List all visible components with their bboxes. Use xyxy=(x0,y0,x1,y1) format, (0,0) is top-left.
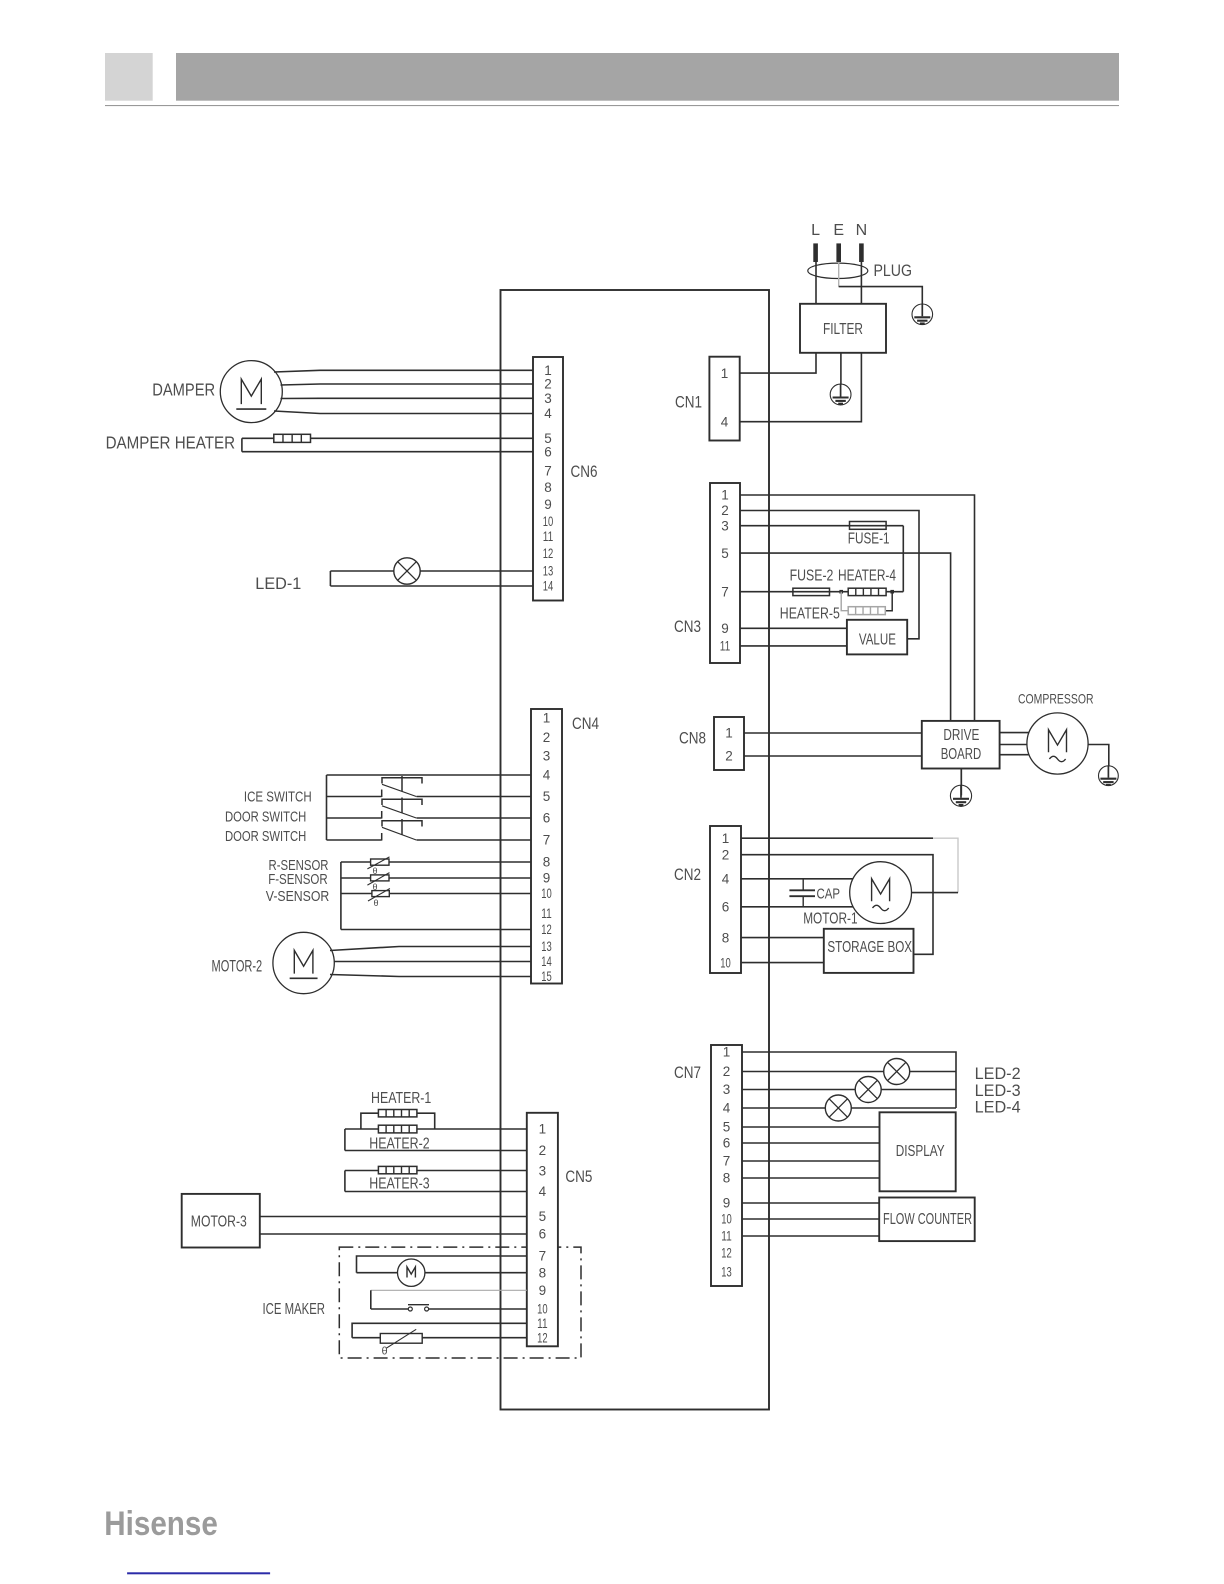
heater element HEATER-4 xyxy=(848,588,886,595)
svg-text:6: 6 xyxy=(539,1227,547,1242)
svg-text:2: 2 xyxy=(543,730,551,745)
wire CN7 pin7 to display xyxy=(742,1160,880,1162)
reed switch bridge xyxy=(408,1304,429,1306)
motor DAMPER circle xyxy=(220,361,282,423)
thermistor F-SENSOR xyxy=(371,875,389,881)
switch bracket xyxy=(382,778,422,784)
switch stem xyxy=(401,819,403,835)
svg-text:6: 6 xyxy=(544,445,552,460)
svg-text:8: 8 xyxy=(543,855,551,870)
switch blade xyxy=(382,784,416,796)
svg-text:θ: θ xyxy=(382,1346,388,1358)
wire damper heater to CN6 pin 6 xyxy=(242,451,533,453)
heater element HEATER-3 xyxy=(378,1166,417,1173)
svg-text:FUSE-1: FUSE-1 xyxy=(848,531,890,548)
wire filter N to CN1 pin 4 xyxy=(740,353,862,422)
svg-text:F-SENSOR: F-SENSOR xyxy=(268,871,328,888)
svg-text:9: 9 xyxy=(723,1196,731,1211)
wire heater-2 left end xyxy=(344,1129,346,1151)
svg-text:FILTER: FILTER xyxy=(823,321,863,338)
svg-text:15: 15 xyxy=(541,969,552,984)
wire motor-2 to CN4 pin 14 xyxy=(334,961,531,963)
thermistor ice maker xyxy=(380,1334,422,1344)
svg-text:5: 5 xyxy=(539,1209,547,1224)
wire damper to CN6 pin 4 xyxy=(274,411,533,414)
wire ice maker to CN5 pin 11 xyxy=(352,1323,527,1337)
wire CN2 pin2 to storage box xyxy=(741,855,933,955)
svg-text:CAP: CAP xyxy=(817,887,841,903)
wire CN2 pin8 to storage box xyxy=(741,937,824,939)
svg-text:6: 6 xyxy=(723,1136,731,1151)
wire CN8 pin1 to drive board xyxy=(744,732,922,734)
switch fixed contact xyxy=(381,790,383,798)
wire motor-2 to CN4 pin 13 xyxy=(330,947,531,951)
wire to CN5 pin 2 xyxy=(345,1150,527,1152)
svg-text:CN6: CN6 xyxy=(571,463,598,481)
svg-text:DOOR SWITCH: DOOR SWITCH xyxy=(225,828,306,845)
svg-text:N: N xyxy=(856,222,868,239)
lamp LED-4 xyxy=(825,1095,851,1121)
svg-text:DRIVE: DRIVE xyxy=(943,727,979,744)
svg-text:STORAGE BOX: STORAGE BOX xyxy=(827,939,912,956)
main control board outline xyxy=(501,290,770,1410)
motor ice maker M glyph xyxy=(407,1267,415,1278)
svg-text:4: 4 xyxy=(544,406,552,421)
wire CN2 pin10 to storage box xyxy=(741,962,824,964)
wire switch row left xyxy=(327,817,382,819)
wire motor-3 to CN5 pin 6 xyxy=(260,1233,527,1235)
svg-text:7: 7 xyxy=(721,584,729,599)
fuse FUSE-1 xyxy=(850,522,887,530)
svg-text:9: 9 xyxy=(539,1283,547,1298)
junction heater-4 left xyxy=(839,590,843,594)
wire heater-3 left end xyxy=(344,1171,346,1192)
wire plug E drop (faded) xyxy=(838,262,840,287)
wire switch common vertical xyxy=(326,775,328,840)
wire sensor common vertical xyxy=(340,862,342,930)
wire heater-5 branch right xyxy=(885,592,892,611)
svg-text:12: 12 xyxy=(543,546,554,561)
svg-text:3: 3 xyxy=(723,1082,731,1097)
svg-text:6: 6 xyxy=(543,811,551,826)
wire CN7 pin3 with LED-3 xyxy=(742,1089,956,1091)
wire switch row left xyxy=(327,796,382,798)
wire drive board earth stub xyxy=(960,769,962,796)
svg-text:3: 3 xyxy=(721,518,729,533)
wire R-SENSOR to CN4 pin 8 xyxy=(341,861,531,863)
wire to CN4 pin 4 xyxy=(327,774,532,776)
svg-text:HEATER-4: HEATER-4 xyxy=(838,568,896,585)
svg-text:11: 11 xyxy=(543,529,554,544)
svg-text:13: 13 xyxy=(721,1265,732,1280)
svg-text:4: 4 xyxy=(543,768,551,783)
wire motor-3 to CN5 pin 5 xyxy=(260,1216,527,1218)
wire CN7 pin10 to flow counter xyxy=(742,1218,879,1220)
switch stem xyxy=(401,798,403,814)
svg-text:CN5: CN5 xyxy=(565,1168,592,1186)
wire LED-1 to CN6 pin 14 xyxy=(330,585,533,587)
ground earth below drive board xyxy=(960,785,962,798)
wire ice maker to CN5 pin 9 (light) xyxy=(371,1289,527,1291)
svg-text:MOTOR-1: MOTOR-1 xyxy=(803,911,857,928)
heater element HEATER-1 xyxy=(361,1113,435,1129)
wire CN7 pin6 to display xyxy=(742,1142,880,1144)
svg-text:CN8: CN8 xyxy=(679,730,706,748)
wire switch row right to CN4 xyxy=(417,839,532,841)
switch stem xyxy=(401,776,403,792)
svg-text:1: 1 xyxy=(543,711,551,726)
svg-text:11: 11 xyxy=(541,906,552,921)
svg-text:7: 7 xyxy=(543,833,551,848)
wire switch row right to CN4 xyxy=(417,817,532,819)
wire compressor to earth xyxy=(1088,745,1109,766)
svg-text:FUSE-2: FUSE-2 xyxy=(790,568,834,585)
lamp LED-3 xyxy=(855,1077,881,1103)
reed switch contact right xyxy=(425,1307,429,1311)
wire CN2 pin6 to motor-1 xyxy=(741,906,853,908)
wire damper to CN6 pin 2 xyxy=(281,384,534,385)
svg-text:PLUG: PLUG xyxy=(874,262,913,280)
wire damper to CN6 pin 1 xyxy=(274,370,533,372)
svg-text:7: 7 xyxy=(539,1249,547,1264)
svg-text:CN4: CN4 xyxy=(572,715,599,733)
wire motor-2 to CN4 pin 15 xyxy=(330,975,531,977)
wire fuse-1 drop to heater row xyxy=(902,526,904,592)
svg-text:E: E xyxy=(833,222,844,239)
svg-text:ICE MAKER: ICE MAKER xyxy=(263,1301,326,1318)
svg-text:10: 10 xyxy=(541,886,552,901)
reed switch contact left xyxy=(408,1307,412,1311)
svg-text:4: 4 xyxy=(539,1184,547,1199)
footer blue rule xyxy=(127,1572,270,1574)
wire CN7 pin9 to flow counter xyxy=(742,1202,879,1204)
plug body ellipse xyxy=(808,263,868,278)
wire ice maker motor to CN5 pin 8 xyxy=(357,1272,398,1274)
svg-text:2: 2 xyxy=(544,377,552,392)
svg-text:1: 1 xyxy=(721,488,729,503)
svg-text:10: 10 xyxy=(721,1212,732,1227)
wire LED-1 left end xyxy=(329,571,331,586)
capacitor CAP drop bottom xyxy=(802,896,804,907)
svg-text:12: 12 xyxy=(721,1246,732,1261)
svg-text:9: 9 xyxy=(721,621,729,636)
connector CN4 box xyxy=(531,709,562,984)
svg-text:1: 1 xyxy=(725,726,733,741)
connector CN8 box xyxy=(714,717,744,770)
component STORAGE BOX box xyxy=(824,929,914,973)
wire LED-1 to CN6 pin 13 xyxy=(330,570,533,572)
svg-text:V-SENSOR: V-SENSOR xyxy=(266,888,330,905)
page header gray bar xyxy=(176,53,1119,101)
svg-text:12: 12 xyxy=(541,922,552,937)
svg-text:11: 11 xyxy=(720,639,731,654)
wire filter earth stub xyxy=(840,353,842,384)
svg-text:2: 2 xyxy=(723,1064,731,1079)
svg-text:Hisense: Hisense xyxy=(104,1505,218,1543)
ground earth at compressor xyxy=(1107,766,1109,778)
switch bracket xyxy=(382,821,422,827)
svg-text:2: 2 xyxy=(725,749,733,764)
wire CN7 pin2 with LED-2 xyxy=(742,1071,956,1073)
component VALUE box xyxy=(847,620,907,655)
svg-text:FLOW COUNTER: FLOW COUNTER xyxy=(883,1211,972,1228)
plug pin blade N xyxy=(859,243,864,262)
motor MOTOR-1 M glyph xyxy=(872,879,890,902)
capacitor CAP plates xyxy=(789,889,815,891)
wire ice maker sensor to CN5 pin 12 xyxy=(352,1337,527,1339)
svg-text:2: 2 xyxy=(721,503,729,518)
wire damper heater left end xyxy=(241,438,243,451)
svg-text:14: 14 xyxy=(543,579,554,594)
svg-text:9: 9 xyxy=(543,871,551,886)
wire F-SENSOR to CN4 pin 9 xyxy=(341,877,531,879)
heater element damper heater xyxy=(274,434,311,442)
motor MOTOR-1 circle xyxy=(850,862,912,924)
wire ice maker to CN5 pin 7 xyxy=(357,1256,527,1273)
wire CN3 pin7 with FUSE-2 xyxy=(740,591,841,593)
wire reed switch to CN5 pin 10 right xyxy=(429,1308,527,1310)
svg-text:HEATER-1: HEATER-1 xyxy=(371,1090,431,1107)
svg-text:DAMPER HEATER: DAMPER HEATER xyxy=(106,433,236,453)
wire plug L to filter xyxy=(815,262,817,304)
wire plug N to filter xyxy=(860,262,862,304)
wire V-SENSOR to CN4 pin 10 xyxy=(341,893,531,895)
wire drive board to compressor 1 xyxy=(1000,732,1029,734)
heater element HEATER-2 xyxy=(378,1125,417,1133)
wire filter L to CN1 pin 1 xyxy=(740,353,816,373)
svg-text:4: 4 xyxy=(722,872,730,887)
svg-text:5: 5 xyxy=(721,546,729,561)
wire CN2 pin1 to motor-1 (light part) xyxy=(933,838,958,892)
connector CN3 box xyxy=(710,483,740,663)
svg-text:4: 4 xyxy=(723,1101,731,1116)
motor ice maker circle xyxy=(398,1259,425,1286)
motor DAMPER M glyph xyxy=(241,379,261,404)
ground earth at plug xyxy=(921,304,923,316)
svg-text:LED-1: LED-1 xyxy=(255,575,301,593)
svg-text:3: 3 xyxy=(543,749,551,764)
svg-text:3: 3 xyxy=(544,391,552,406)
wire CN3 pin5 to drive board xyxy=(740,553,951,721)
wire plug E to earth xyxy=(839,287,923,304)
wire CN7 pin4 with LED-4 xyxy=(742,1107,956,1109)
motor MOTOR-2 circle xyxy=(273,932,334,993)
svg-text:LED-2: LED-2 xyxy=(975,1064,1021,1083)
svg-text:L: L xyxy=(811,222,820,239)
switch fixed contact xyxy=(381,833,383,841)
svg-text:HEATER-5: HEATER-5 xyxy=(780,606,840,623)
svg-text:CN1: CN1 xyxy=(675,394,702,412)
svg-text:14: 14 xyxy=(541,954,552,969)
heater element HEATER-5 (faded) xyxy=(848,607,885,615)
wire switch row right to CN4 xyxy=(417,796,532,798)
svg-text:10: 10 xyxy=(537,1302,548,1317)
connector CN5 box xyxy=(527,1113,558,1347)
wire CN3 pin3 with FUSE-1 xyxy=(740,525,903,527)
connector CN1 box xyxy=(709,357,739,441)
svg-text:8: 8 xyxy=(544,480,552,495)
switch blade xyxy=(382,806,416,818)
svg-text:8: 8 xyxy=(722,930,730,945)
svg-text:VALUE: VALUE xyxy=(859,632,896,649)
wire CN3 pin11 to value xyxy=(740,645,847,647)
plug pin blade E xyxy=(836,243,841,262)
svg-text:10: 10 xyxy=(720,955,731,970)
wire CN8 pin2 to drive board xyxy=(744,755,922,757)
wire drive board to compressor 3 xyxy=(1000,754,1030,756)
fuse FUSE-2 xyxy=(793,588,830,595)
svg-text:6: 6 xyxy=(722,900,730,915)
wire damper heater to CN6 pin 5 xyxy=(242,437,533,439)
svg-text:10: 10 xyxy=(543,514,554,529)
svg-text:LED-4: LED-4 xyxy=(975,1098,1021,1117)
svg-text:11: 11 xyxy=(721,1229,732,1244)
wire to CN5 pin 3 with HEATER-3 xyxy=(345,1170,527,1172)
capacitor CAP drop top xyxy=(802,879,804,891)
connector CN2 box xyxy=(710,826,741,973)
thermistor R-SENSOR xyxy=(371,859,389,865)
svg-text:CN2: CN2 xyxy=(674,866,701,884)
wire switch row left xyxy=(327,839,382,841)
svg-text:1: 1 xyxy=(723,1045,731,1060)
lamp LED-2 xyxy=(884,1059,910,1085)
wire CN7 pin11 to flow counter xyxy=(742,1235,879,1237)
svg-text:CN7: CN7 xyxy=(674,1064,701,1082)
svg-text:1: 1 xyxy=(539,1122,547,1137)
svg-text:MOTOR-3: MOTOR-3 xyxy=(191,1214,247,1231)
page header light gray square xyxy=(105,53,153,101)
switch blade xyxy=(382,827,416,840)
wire CN3 pin2 to value xyxy=(740,511,919,639)
svg-text:ICE SWITCH: ICE SWITCH xyxy=(244,789,312,806)
wire motor-1 right xyxy=(912,892,959,894)
wire heater-4 row xyxy=(841,591,903,593)
svg-text:13: 13 xyxy=(541,939,552,954)
svg-text:7: 7 xyxy=(723,1154,731,1169)
wire to CN5 pin 1 with HEATER-2 xyxy=(345,1128,527,1130)
svg-text:MOTOR-2: MOTOR-2 xyxy=(212,958,263,976)
wire damper to CN6 pin 3 xyxy=(281,397,534,399)
filter box xyxy=(800,304,886,353)
page header rule line xyxy=(105,105,1119,106)
svg-text:DOOR SWITCH: DOOR SWITCH xyxy=(225,809,306,826)
connector CN6 box xyxy=(533,357,563,601)
svg-text:4: 4 xyxy=(721,414,729,429)
component FLOW COUNTER box xyxy=(879,1198,975,1242)
component MOTOR-3 box xyxy=(182,1194,260,1248)
svg-text:12: 12 xyxy=(537,1330,548,1345)
wire sensor return to CN4 pin 12 xyxy=(341,929,531,931)
ice maker dash-dot enclosure xyxy=(339,1247,581,1358)
svg-text:11: 11 xyxy=(537,1316,548,1331)
junction heater-4 right xyxy=(890,590,894,594)
svg-text:θ: θ xyxy=(374,898,379,908)
svg-text:1: 1 xyxy=(722,831,730,846)
svg-text:COMPRESSOR: COMPRESSOR xyxy=(1018,691,1094,707)
svg-text:DAMPER: DAMPER xyxy=(152,379,215,399)
switch fixed contact xyxy=(381,811,383,819)
lamp LED-1 xyxy=(394,558,420,584)
svg-text:13: 13 xyxy=(543,564,554,579)
wire CN3 pin9 to value xyxy=(740,627,847,629)
motor MOTOR-2 M glyph xyxy=(294,950,313,973)
plug pin blade L xyxy=(813,243,818,262)
svg-text:HEATER-3: HEATER-3 xyxy=(369,1176,429,1193)
ground earth below filter xyxy=(840,384,842,396)
wire ice maker switch to CN5 pin 10 xyxy=(371,1308,409,1310)
wire CN2 pin1 to motor-1 (dark part) xyxy=(741,837,933,839)
svg-text:8: 8 xyxy=(539,1265,547,1280)
component DRIVE BOARD box xyxy=(922,721,1000,769)
wire ice maker pin9 drop xyxy=(370,1290,372,1309)
svg-text:1: 1 xyxy=(721,366,729,381)
svg-text:9: 9 xyxy=(544,497,552,512)
component DISPLAY box xyxy=(880,1112,956,1191)
motor COMPRESSOR M glyph xyxy=(1049,730,1067,753)
wire drive board to compressor 2 xyxy=(1000,744,1027,746)
wire to CN5 pin 4 xyxy=(345,1191,527,1193)
motor COMPRESSOR circle xyxy=(1027,713,1088,774)
switch bracket xyxy=(382,799,422,805)
svg-text:5: 5 xyxy=(723,1120,731,1135)
svg-text:8: 8 xyxy=(723,1171,731,1186)
wire heater-5 branch left (faded) xyxy=(841,592,848,611)
svg-text:BOARD: BOARD xyxy=(941,746,982,763)
svg-text:5: 5 xyxy=(543,789,551,804)
svg-text:CN3: CN3 xyxy=(674,618,701,636)
svg-text:2: 2 xyxy=(722,847,730,862)
connector CN7 box xyxy=(711,1045,742,1286)
svg-text:2: 2 xyxy=(539,1143,547,1158)
wire CN2 pin4 to motor-1 xyxy=(741,878,853,880)
svg-text:DISPLAY: DISPLAY xyxy=(896,1143,945,1160)
wire CN7 pin1 common xyxy=(742,1052,956,1108)
wire CN3 pin1 to drive board xyxy=(740,495,975,721)
wire CN7 pin8 to display xyxy=(742,1177,880,1179)
thermistor V-SENSOR xyxy=(372,891,389,897)
svg-text:7: 7 xyxy=(544,464,552,479)
svg-text:3: 3 xyxy=(539,1164,547,1179)
wire CN7 pin5 to display xyxy=(742,1126,880,1128)
